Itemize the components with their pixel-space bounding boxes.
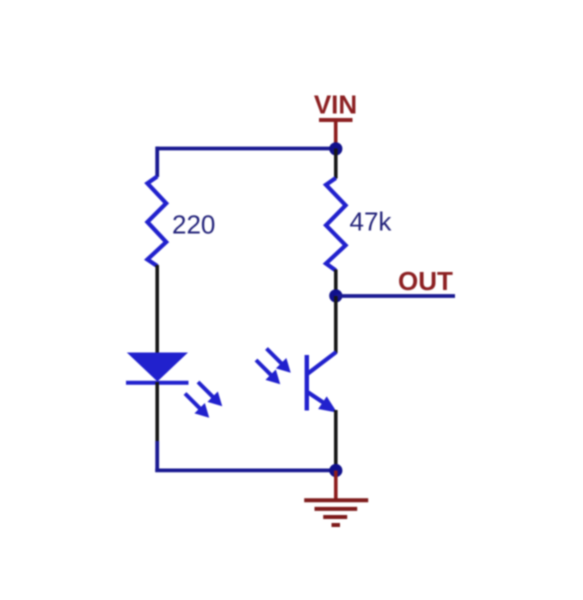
node top junction (329, 142, 342, 155)
ground bar 3 (323, 515, 347, 519)
wire right (OUT node to transistor collector) (334, 296, 338, 353)
svg-text:220: 220 (172, 210, 215, 240)
LED light arrow upper (198, 382, 222, 406)
phototransistor Q1 emitter lead with arrow (308, 392, 336, 412)
node bottom junction (329, 464, 342, 477)
LED D1 cathode bar (126, 381, 189, 385)
LED D1 triangle (127, 353, 188, 382)
svg-text:47k: 47k (350, 207, 393, 237)
light arrow lower into Q1 (256, 360, 280, 384)
wire right lower (emitter to bottom node) (334, 410, 338, 471)
wire right (resistor to OUT node) (334, 270, 338, 297)
phototransistor Q1 collector lead (308, 352, 337, 374)
node OUT junction (329, 289, 342, 302)
wire top rail (156, 147, 336, 151)
LED light arrow lower (185, 394, 209, 418)
ground bar 2 (315, 507, 358, 511)
resistor R2 47k zigzag (326, 178, 346, 271)
ground bar 1 (304, 498, 368, 502)
svg-text:VIN: VIN (314, 90, 357, 120)
svg-text:OUT: OUT (398, 266, 453, 296)
ground bar 4 (332, 523, 341, 527)
resistor R1 220 zigzag (147, 177, 166, 267)
wire OUT horizontal (336, 294, 455, 298)
power VIN stem (334, 120, 338, 147)
wire left lower (LED to corner) black part (155, 382, 159, 441)
wire left upper vertical (155, 147, 159, 177)
ground stem (334, 471, 338, 501)
wire left lower navy part (155, 441, 159, 472)
phototransistor Q1 base bar (305, 355, 309, 411)
power VIN bar (319, 118, 353, 122)
wire bottom rail (155, 468, 336, 472)
wire right upper (node to resistor) (334, 149, 338, 179)
wire left middle (resistor to LED) (155, 265, 159, 353)
light arrow upper into Q1 (267, 349, 291, 373)
